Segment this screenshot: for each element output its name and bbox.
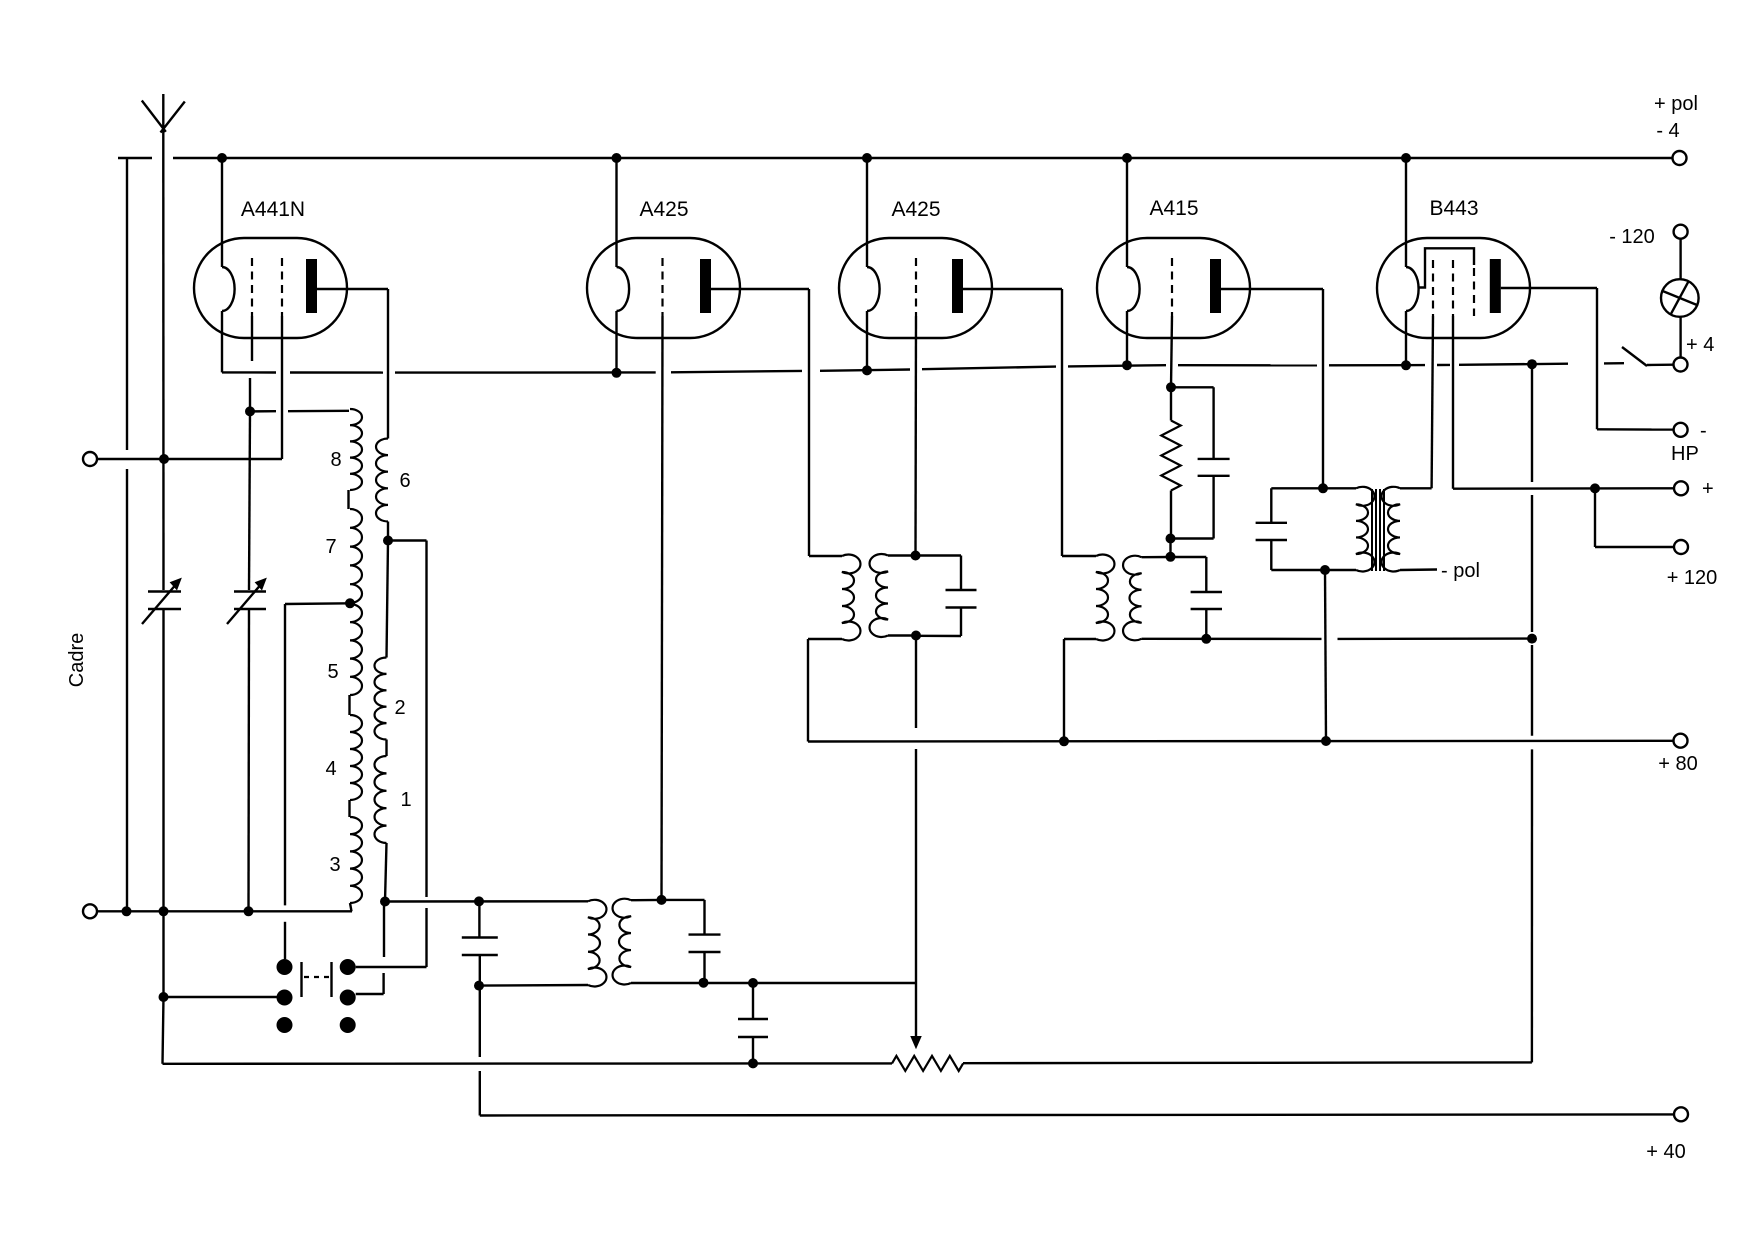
wire V5 anode — [1501, 287, 1597, 289]
wire IF1 cap bottom — [960, 608, 962, 637]
node Tout bottom — [1320, 565, 1330, 575]
capacitor IF1 tune — [946, 589, 977, 591]
svg-text:3: 3 — [329, 854, 340, 876]
wire IF1 sec down to wiper — [915, 636, 917, 729]
svg-text:+ 40: + 40 — [1646, 1141, 1685, 1163]
coil 1 — [375, 756, 387, 843]
wire coupling top — [752, 983, 754, 1019]
node V4 grid node lower — [1166, 552, 1176, 562]
wire V5 grid1 down — [1432, 316, 1433, 488]
node IF2 return — [1059, 736, 1069, 746]
wire IF2 cap bottom — [1205, 609, 1207, 639]
wire V4 grid down — [1171, 316, 1172, 387]
wire coil2-coil1 link — [385, 740, 387, 757]
anode V2 — [700, 259, 711, 313]
wire Tout bottom down — [1325, 570, 1326, 741]
grid V2 dashed — [661, 258, 663, 316]
wire osc grid line — [385, 900, 588, 903]
terminal +40 — [1674, 1107, 1688, 1121]
wire +120 link — [1594, 488, 1596, 547]
transformer IF2 primary — [1096, 555, 1114, 641]
node coupling-bias — [748, 1058, 758, 1068]
tube V3 A425 envelope — [839, 238, 992, 338]
wire Tout sec bottom to -pol — [1400, 568, 1437, 571]
anode V3 — [952, 259, 963, 313]
wire osc node down — [479, 986, 481, 1057]
capacitor IF2 tune — [1191, 591, 1222, 593]
svg-text:+ 4: + 4 — [1686, 334, 1714, 356]
cathode V4 — [1127, 267, 1140, 311]
switch contact A2 — [277, 990, 293, 1006]
node antenna-lead junction — [159, 906, 169, 916]
node bus2-V2 — [612, 368, 622, 378]
tube V2 A425 envelope — [587, 238, 740, 338]
wire coil1 bottom link — [385, 843, 387, 902]
wire CV1 down — [162, 609, 164, 997]
node HT drop mid — [1527, 634, 1537, 644]
svg-text:A425: A425 — [639, 198, 688, 221]
wire coil5-coil4 link — [348, 695, 350, 715]
lamp — [1661, 279, 1699, 317]
potentiometer — [892, 1056, 963, 1071]
tube V1 A441N envelope — [194, 238, 347, 338]
wire tap to bypass — [285, 602, 350, 605]
transformer Ldet secondary — [613, 899, 631, 985]
coil 6 — [376, 439, 388, 522]
switch contact A3 — [277, 1017, 293, 1033]
node bus1-V3 — [862, 153, 872, 163]
transformer Ldet primary — [588, 900, 606, 987]
coil 7 — [350, 509, 362, 603]
grid1 V5 dashed — [1432, 260, 1434, 316]
terminal +80 — [1674, 734, 1688, 748]
switch contact B3 — [340, 1017, 356, 1033]
potentiometer wiper — [915, 983, 917, 1041]
wire grid cap top — [662, 899, 705, 901]
wire osc cap bottom — [479, 955, 481, 986]
coil 3 — [350, 817, 362, 903]
wire coil8-coil7 link — [347, 490, 349, 509]
wire IF2 cap top — [1171, 556, 1207, 558]
anode V5 — [1490, 259, 1501, 313]
svg-text:+: + — [1702, 478, 1714, 500]
cathode V3 — [867, 267, 880, 311]
node coil6 bottom — [383, 536, 393, 546]
wire coil6 to reaction drop — [388, 539, 427, 541]
terminal + — [1674, 481, 1688, 495]
node V2 grid junction — [657, 895, 667, 905]
terminal cadre-bottom — [83, 904, 97, 918]
wire V3 filament bottom — [866, 311, 868, 370]
wire HT drop — [1531, 364, 1533, 482]
anode V1 — [306, 259, 317, 313]
cathode V5 — [1406, 267, 1419, 311]
node gridleak cap bottom — [699, 978, 709, 988]
wire V1 anode — [317, 288, 388, 290]
node V4 grid top — [1166, 382, 1176, 392]
svg-text:- 120: - 120 — [1609, 226, 1655, 248]
wire V2 filament top — [615, 158, 617, 267]
wire coil6-coil2 link — [387, 541, 389, 658]
wire V2 grid down — [662, 316, 663, 900]
antenna — [162, 94, 164, 158]
capacitor grid V2 — [689, 933, 721, 935]
transformer T-out primary — [1356, 487, 1374, 572]
terminal +120 — [1674, 540, 1688, 554]
svg-text:B443: B443 — [1429, 197, 1478, 220]
svg-text:A425: A425 — [891, 198, 940, 221]
coil 8 — [350, 409, 362, 490]
node coil1 bottom — [380, 897, 390, 907]
svg-text:A441N: A441N — [241, 198, 305, 221]
wire Tout cap bottom — [1270, 540, 1272, 570]
wire antenna lead down — [162, 158, 165, 590]
wire CV1 to switch row2 — [164, 996, 278, 998]
wire V3 anode — [963, 288, 1062, 290]
wire Ldet sec bottom — [631, 982, 916, 984]
svg-text:Cadre: Cadre — [66, 633, 88, 687]
node V4 grid node upper — [1166, 534, 1176, 544]
switch contact A1 — [277, 959, 293, 975]
wire Ldet sec top — [631, 899, 662, 902]
wire B1 to reaction — [356, 966, 427, 968]
wire +120 rail — [1595, 546, 1674, 548]
svg-text:- pol: - pol — [1441, 560, 1480, 582]
wire IF2 sec top — [1142, 556, 1171, 559]
wire cadre-bottom — [97, 910, 353, 912]
svg-text:- 4: - 4 — [1656, 120, 1679, 142]
grid2 V1 dashed — [281, 258, 283, 316]
wire grid1 to coil8 — [250, 410, 276, 413]
wire B2 to coil1 — [356, 993, 384, 995]
node Ldet bottom — [474, 981, 484, 991]
wire Tout cap top — [1271, 487, 1323, 489]
wire IF1 sec bottom — [888, 634, 916, 636]
node CV2 junction — [244, 906, 254, 916]
resistor grid leak — [1170, 387, 1172, 420]
node IF1 sec top — [911, 551, 921, 561]
wire IF1 pri top — [809, 555, 842, 557]
wire V3 filament top — [866, 158, 868, 267]
coil 2 — [375, 658, 387, 740]
wire left drop — [126, 158, 128, 450]
capacitor grid leak — [1198, 458, 1230, 460]
grid3 V5 dashed — [1473, 268, 1475, 316]
cathode V1 — [222, 267, 235, 311]
terminal -4 — [1673, 151, 1687, 165]
svg-text:5: 5 — [327, 661, 338, 683]
wire V1 filament bottom — [221, 311, 223, 372]
svg-text:2: 2 — [394, 697, 405, 719]
node bus1-V2 — [612, 153, 622, 163]
wire IF2 sec bottom — [1142, 638, 1322, 641]
tube V5 B443 envelope — [1377, 238, 1530, 338]
wire Tout pri bottom — [1325, 569, 1356, 571]
wire +40 rail — [480, 1114, 1674, 1115]
switch gang bars — [300, 962, 302, 997]
node output transformer return — [1321, 736, 1331, 746]
coil 5 — [350, 604, 362, 695]
wire osc cap top — [478, 901, 480, 937]
wire IF1 pri bottom — [808, 638, 842, 640]
wire V1 filament top — [221, 158, 223, 267]
wire gridleak cap top — [1171, 386, 1214, 388]
capacitor coupling — [738, 1018, 768, 1020]
grid V4 dashed — [1171, 258, 1173, 316]
wire IF1 sec top — [888, 554, 916, 556]
svg-text:+ 120: + 120 — [1667, 567, 1718, 589]
capacitor osc — [462, 936, 498, 938]
wire bus +pol -4 — [118, 157, 152, 159]
wire grid nodes link — [1169, 539, 1171, 557]
wire grid cap bottom — [703, 952, 705, 983]
wire reaction drop — [425, 541, 427, 898]
node bus2-V4 — [1122, 360, 1132, 370]
wire coil6 bottom link — [387, 522, 389, 541]
wire bypass down to switch — [284, 604, 286, 905]
svg-text:+ pol: + pol — [1654, 93, 1698, 115]
wire V1 grid1 tail — [251, 316, 253, 361]
svg-text:4: 4 — [325, 758, 336, 780]
svg-text:6: 6 — [399, 470, 410, 492]
wire coupling bottom — [752, 1037, 754, 1063]
wire coil4-coil3 link — [348, 800, 350, 817]
svg-text:7: 7 — [325, 536, 336, 558]
variable capacitor CV1 — [148, 590, 181, 592]
wire bus2 filament rail — [222, 371, 276, 374]
wire + rail — [1453, 487, 1674, 490]
grid1 V1 dashed — [251, 258, 253, 316]
wire IF2 pri top — [1062, 555, 1096, 557]
svg-text:A415: A415 — [1149, 197, 1198, 220]
coil 4 — [350, 715, 362, 800]
node bus1-V5 — [1401, 153, 1411, 163]
wire V2 anode — [711, 288, 809, 290]
node CV1-bias junction — [159, 992, 169, 1002]
node V1 grid1 — [245, 406, 255, 416]
wire IF1 cap top — [916, 554, 962, 556]
svg-text:8: 8 — [330, 449, 341, 471]
wire CV2 up — [249, 411, 250, 590]
node coil7-coil5 tap — [345, 598, 355, 608]
node C-osc top — [474, 896, 484, 906]
wire Tout pri top — [1323, 487, 1356, 489]
wire CV2 down — [247, 609, 250, 911]
wire V1 grid2 tail — [281, 316, 283, 459]
wire V3 grid down — [914, 316, 917, 556]
switch blade — [1622, 347, 1647, 366]
terminal +4 — [1674, 358, 1688, 372]
transformer IF1 secondary — [870, 554, 888, 637]
anode V4 — [1210, 259, 1221, 313]
screen bracket V5 — [1419, 248, 1475, 287]
switch contact B2 — [340, 990, 356, 1006]
node left-drop junction — [122, 906, 132, 916]
tube V4 A415 envelope — [1097, 238, 1250, 338]
grid2 V5 dashed — [1452, 260, 1454, 316]
cathode V2 — [617, 267, 630, 311]
grid V3 dashed — [915, 258, 917, 316]
wire CV1 junction down to HT- rail — [163, 997, 164, 1064]
wire -120 to lamp — [1679, 239, 1681, 280]
node bus2-V3 — [862, 365, 872, 375]
wire V4 filament bottom — [1126, 311, 1128, 365]
wire coil3 tail — [350, 903, 352, 911]
node bus1-V4 — [1122, 153, 1132, 163]
terminal cadre-top — [83, 452, 97, 466]
wire Tout sec top — [1400, 487, 1432, 489]
wire gridleak cap bottom — [1212, 476, 1214, 539]
transformer core — [1371, 489, 1373, 571]
wire V4 filament top — [1126, 158, 1128, 267]
node plus-120 tap — [1590, 483, 1600, 493]
transformer IF2 secondary — [1123, 556, 1141, 641]
wire Ldet primary bottom — [479, 984, 588, 987]
wire V5 grid2 down — [1452, 316, 1454, 489]
wire V4 anode — [1221, 288, 1323, 290]
wire V2 filament bottom — [615, 311, 617, 373]
wire lamp to +4 — [1679, 317, 1681, 358]
wire V5 filament bottom — [1405, 311, 1407, 365]
switch contact B1 — [340, 959, 356, 975]
transformer IF1 primary — [842, 555, 860, 641]
node antenna-cadre junction — [159, 454, 169, 464]
wire V5 filament top — [1405, 158, 1407, 267]
capacitor Tout — [1256, 522, 1287, 524]
node bus2-HTdrop — [1527, 359, 1537, 369]
svg-text:1: 1 — [400, 789, 411, 811]
wire bias rail — [163, 1062, 893, 1065]
svg-text:+ 80: + 80 — [1658, 753, 1697, 775]
transformer T-out secondary — [1382, 487, 1400, 572]
node IF1 sec bottom — [911, 631, 921, 641]
variable capacitor CV2 — [234, 590, 266, 592]
node V4 anode junction — [1318, 483, 1328, 493]
wire HP line — [1597, 428, 1673, 431]
wire IF2 pri bottom — [1064, 638, 1096, 640]
svg-text:-: - — [1700, 420, 1707, 442]
svg-text:HP: HP — [1671, 443, 1699, 465]
terminal -HP — [1674, 423, 1688, 437]
terminal -120 — [1674, 225, 1688, 239]
node bus2-V5 — [1401, 360, 1411, 370]
node bus1-V1 — [217, 153, 227, 163]
node coupling junction — [748, 978, 758, 988]
wire cadre-top to grid2 — [97, 458, 283, 460]
node IF2 cap bottom — [1201, 634, 1211, 644]
wire +80 rail — [808, 740, 1673, 743]
